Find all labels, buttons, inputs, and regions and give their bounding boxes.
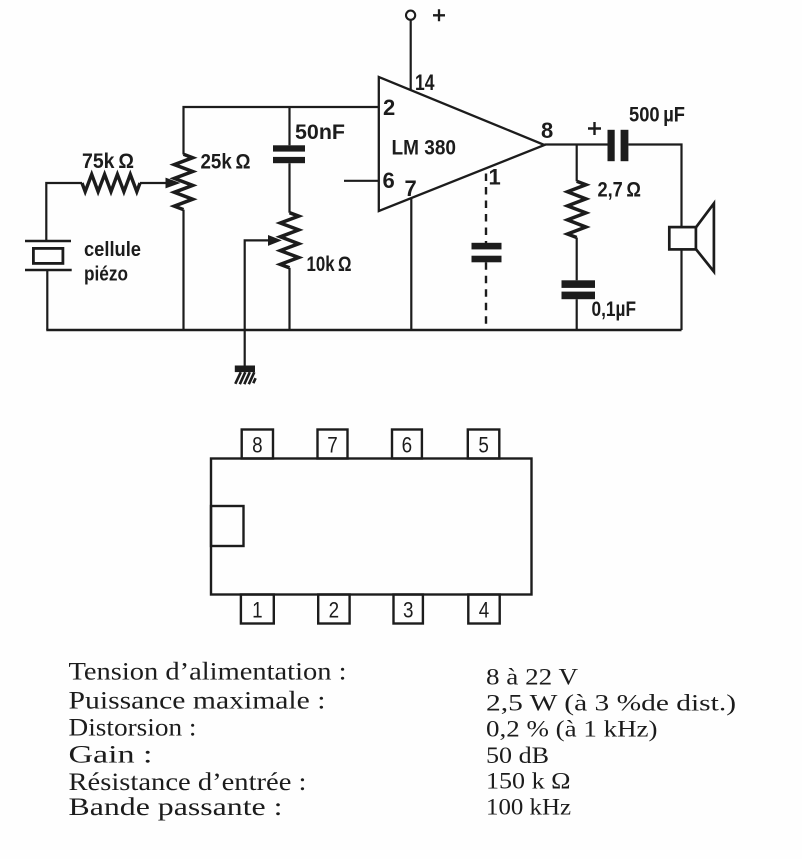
svg-text:6: 6 xyxy=(402,433,413,458)
wire top rail (pot 25k to pin 2) xyxy=(184,107,379,155)
piezo cell transducer xyxy=(25,241,72,270)
wire junction to resistor 2.7 xyxy=(576,145,578,182)
capacitor 500uF xyxy=(608,130,629,161)
capacitor 50nF xyxy=(273,145,305,163)
potentiometer 10k zigzag xyxy=(280,213,298,268)
svg-text:0,1µF: 0,1µF xyxy=(592,297,637,321)
wire piezo to resistor 75k xyxy=(46,183,82,241)
wire capacitor 0.1uF to ground rail xyxy=(576,299,578,330)
dashed wire bypass capacitor to ground rail xyxy=(485,262,487,329)
svg-text:7: 7 xyxy=(327,433,338,458)
capacitor 0.1uF xyxy=(562,280,596,299)
svg-text:5: 5 xyxy=(478,433,489,458)
svg-text:4: 4 xyxy=(479,598,490,623)
wire speaker to ground rail xyxy=(680,249,682,330)
speaker LS xyxy=(669,203,714,271)
svg-text:Puissance maximale :: Puissance maximale : xyxy=(69,687,326,714)
wire pin 6 stub xyxy=(344,180,379,182)
svg-text:8: 8 xyxy=(541,118,553,143)
wire pin 8 output to capacitor 500uF xyxy=(545,143,608,145)
svg-text:25k Ω: 25k Ω xyxy=(201,150,251,174)
svg-text:Distorsion :: Distorsion : xyxy=(69,715,197,742)
wiper arrow wire of pot 10k to ground xyxy=(245,236,281,366)
IC pin 4 box (bottom row) xyxy=(468,595,499,624)
specification text block xyxy=(69,659,737,822)
wire pin 14 to supply xyxy=(410,20,412,90)
wire resistor 2.7 to capacitor 0.1uF xyxy=(576,238,578,281)
label cellule piezo xyxy=(84,239,141,286)
wire resistor 75k to wiper arrow of pot 25k xyxy=(140,178,179,187)
wire pin 7 to ground rail xyxy=(410,198,412,330)
dashed wire pin 1 to bypass capacitor xyxy=(485,174,487,244)
IC pin 6 box (top row) xyxy=(392,430,422,459)
svg-text:0,2 % (à 1 kHz): 0,2 % (à 1 kHz) xyxy=(486,716,658,742)
svg-text:10k Ω: 10k Ω xyxy=(307,252,352,276)
op-amp U1 triangle LM 380 xyxy=(379,77,545,211)
resistor 75k zigzag xyxy=(82,174,140,191)
potentiometer 25k zigzag xyxy=(174,154,192,209)
IC package notch xyxy=(211,506,244,546)
wire capacitor 50nF to pot 10k xyxy=(288,163,290,213)
IC pin 3 box (bottom row) xyxy=(394,595,423,624)
svg-text:piézo: piézo xyxy=(84,264,128,286)
IC pin 7 box (top row) xyxy=(318,430,348,459)
IC package body xyxy=(211,459,532,595)
svg-text:LM 380: LM 380 xyxy=(392,136,457,160)
polarity + of capacitor 500uF xyxy=(588,122,601,135)
IC pin 2 box (bottom row) xyxy=(318,595,349,624)
svg-text:Résistance d’entrée :: Résistance d’entrée : xyxy=(69,769,307,796)
svg-text:7: 7 xyxy=(405,176,417,201)
svg-text:6: 6 xyxy=(383,168,395,193)
bypass capacitor on pin 1 xyxy=(472,243,502,262)
svg-text:100 kHz: 100 kHz xyxy=(486,795,571,821)
svg-text:2,5 W (à 3 %de dist.): 2,5 W (à 3 %de dist.) xyxy=(486,691,736,717)
svg-text:Gain :: Gain : xyxy=(69,742,153,769)
svg-text:8: 8 xyxy=(252,433,263,458)
svg-text:2,7 Ω: 2,7 Ω xyxy=(598,178,642,202)
wire pot 10k bottom to ground rail xyxy=(288,268,290,330)
wire top rail to capacitor 50nF xyxy=(288,107,290,145)
svg-text:50nF: 50nF xyxy=(295,120,345,144)
svg-text:Bande passante :: Bande passante : xyxy=(69,794,283,821)
svg-text:75k Ω: 75k Ω xyxy=(82,149,134,173)
svg-text:1: 1 xyxy=(489,165,501,190)
svg-text:2: 2 xyxy=(329,598,340,623)
IC pin 5 box (top row) xyxy=(468,430,500,459)
svg-text:14: 14 xyxy=(415,70,435,95)
svg-text:3: 3 xyxy=(403,598,414,623)
svg-text:150 k Ω: 150 k Ω xyxy=(486,768,571,794)
supply terminal (+) with circle xyxy=(406,9,445,21)
svg-text:cellule: cellule xyxy=(84,239,141,261)
svg-text:50 dB: 50 dB xyxy=(486,743,549,769)
resistor 2.7 zigzag xyxy=(568,181,586,237)
wire piezo bottom to ground rail xyxy=(46,270,48,330)
svg-text:8 à 22 V: 8 à 22 V xyxy=(486,665,578,691)
svg-text:2: 2 xyxy=(383,95,395,120)
wire pot 25k bottom to ground rail xyxy=(182,210,184,330)
svg-text:1: 1 xyxy=(252,598,263,623)
ground symbol xyxy=(235,366,256,385)
IC pin 8 box (top row) xyxy=(242,430,273,459)
IC pin 1 box (bottom row) xyxy=(241,595,274,624)
svg-text:500 µF: 500 µF xyxy=(629,103,685,127)
wire capacitor 500uF to speaker branch xyxy=(628,145,681,228)
ground rail bottom wire xyxy=(46,329,681,331)
svg-text:Tension d’alimentation :: Tension d’alimentation : xyxy=(69,659,347,686)
